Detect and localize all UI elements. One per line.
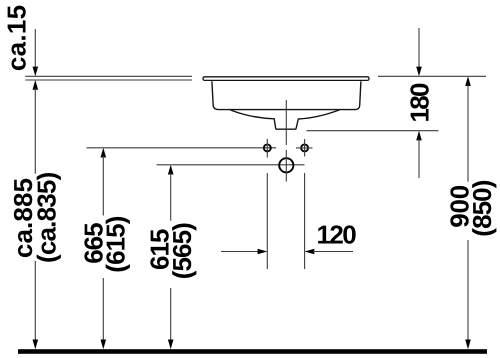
svg-text:(615): (615) — [101, 216, 131, 272]
dimension 180 line above — [418, 28, 420, 70]
drain hole circle — [279, 158, 293, 172]
extension line below right faucet hole (120 dim) — [304, 173, 306, 269]
faucet hole right circle — [301, 144, 308, 151]
dimension 615 line lower segment — [170, 288, 172, 342]
washbasin rim — [203, 77, 369, 81]
extension line below left faucet hole (120 dim) — [266, 173, 268, 269]
dimension 665 arrowhead up — [101, 148, 107, 158]
svg-text:180: 180 — [404, 83, 434, 123]
dimension 615 arrowhead up — [168, 165, 174, 175]
vertical centerline of basin — [285, 100, 287, 145]
dimension 180 arrowhead down — [416, 67, 422, 77]
dimension ca.885 arrowhead up — [33, 80, 39, 90]
dimension 900 line lower segment — [467, 240, 469, 342]
dimension 180 arrowhead up — [416, 131, 422, 141]
extension line at faucet-hole level — [87, 147, 277, 149]
dimension 120 arrowhead right — [258, 249, 268, 255]
dimension 615 arrowhead down at floor — [168, 340, 174, 350]
svg-text:(850): (850) — [467, 180, 497, 236]
dimension 665 line lower segment — [102, 278, 104, 342]
dimension ca.885 line upper segment — [34, 88, 36, 174]
faucet hole right horizontal crosshair — [296, 147, 313, 149]
faucet hole left circle — [264, 144, 271, 151]
dimension ca.885 arrowhead down at floor — [33, 340, 39, 350]
dimension ca.15 arrowhead down — [33, 67, 39, 77]
svg-text:120: 120 — [317, 219, 357, 249]
svg-text:(ca.835): (ca.835) — [32, 172, 62, 263]
svg-text:ca.15: ca.15 — [2, 5, 32, 72]
extension line at bowl bottom level (right) — [307, 130, 439, 132]
washbasin bowl underside with drain stub — [231, 110, 340, 129]
faucet hole right vertical crosshair — [304, 139, 306, 157]
dimension ca.15 leader line above countertop — [34, 29, 36, 70]
dimension 665 line upper segment — [102, 156, 104, 216]
faucet hole left vertical crosshair — [266, 139, 268, 158]
svg-text:(565): (565) — [167, 223, 197, 279]
countertop double line (left of basin) — [25, 76, 192, 80]
floor line — [18, 349, 487, 354]
dimension 665 arrowhead down at floor — [101, 340, 107, 350]
dimension 900 arrowhead down at floor — [465, 340, 471, 350]
drain hole vertical crosshair — [285, 150, 287, 182]
dimension 120 arrowhead left — [305, 249, 315, 255]
washbasin body outline — [212, 81, 361, 109]
extension line at drain level — [157, 164, 305, 166]
dimension 615 line upper segment — [170, 173, 172, 221]
extension line right of basin at countertop level — [378, 75, 486, 77]
dimension 900 arrowhead up — [465, 76, 471, 86]
dimension 120 left line — [221, 251, 259, 253]
dimension ca.885 line lower segment — [34, 261, 36, 342]
dimension 180 line below — [418, 139, 420, 178]
dimension 900 line upper segment — [467, 85, 469, 182]
dimension 120 right line — [313, 251, 353, 253]
